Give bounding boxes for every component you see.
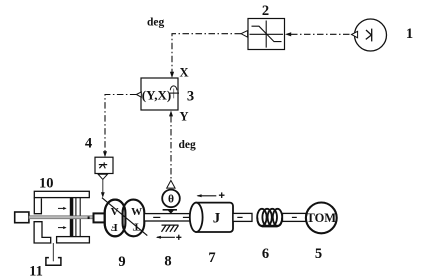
open arrowhead at block 3 left output (136, 92, 141, 97)
arrowhead into block 2 right side (285, 32, 291, 36)
handwheel 1 (circle with lever symbol) (355, 19, 387, 51)
spring coupling 6 (257, 209, 282, 227)
wire: from block 4 down to pump tilt control (102, 179, 104, 192)
svg-text:1: 1 (406, 26, 413, 42)
inertia cylinder 7 (J) (190, 203, 233, 232)
piston (thick bar) (70, 198, 74, 237)
svg-text:X: X (180, 66, 189, 80)
svg-text:deg: deg (179, 139, 197, 151)
open arrowhead at block 2 output (241, 31, 248, 38)
open arrowhead at handwheel 1 output (352, 31, 358, 38)
rotation sense arrow lower (- +) (156, 235, 182, 240)
arrowhead into block 3 bottom (Y input) (169, 111, 173, 117)
flow arrow lower (58, 227, 63, 229)
bottom plate (57, 237, 90, 243)
svg-text:J: J (213, 210, 221, 226)
drain cup 11 (46, 258, 61, 266)
left port (15, 212, 29, 223)
svg-text:10: 10 (39, 175, 54, 191)
svg-text:5: 5 (315, 246, 322, 262)
arrowhead onto pump swash plate (101, 192, 105, 198)
svg-text:F: F (111, 221, 118, 233)
arrowhead into block 3 top (X input) (170, 72, 174, 78)
shaft 8 (144, 214, 191, 221)
svg-text:Y: Y (180, 109, 189, 123)
rod end nub (88, 216, 90, 219)
amplifier block 4 (95, 157, 113, 173)
wire: dash-dot from theta sensor up to block 3 (170, 116, 172, 180)
top bar (34, 191, 89, 197)
swash tilt diagonal (102, 198, 147, 236)
wire: dash-dot from block 3 to block 4 (105, 95, 136, 152)
nonlinear block 2 (saturation) (248, 19, 285, 50)
open arrowhead below block 4 (98, 174, 107, 179)
svg-text:TOM: TOM (306, 211, 336, 225)
svg-text:8: 8 (164, 253, 171, 269)
svg-text:7: 7 (208, 250, 215, 266)
svg-text:6: 6 (262, 246, 269, 262)
svg-text:W: W (131, 206, 142, 218)
svg-text:3: 3 (187, 89, 194, 105)
shaft J to spring (233, 213, 252, 221)
resolver block 3 (Y,X) (141, 78, 179, 110)
upper-left wall channel (34, 198, 41, 214)
flow arrow upper (58, 207, 63, 209)
rotation sense arrow upper (- +) (197, 192, 225, 198)
fixed frame hatching (162, 225, 179, 232)
svg-text:deg: deg (147, 17, 165, 29)
open arrowhead above theta sensor (167, 180, 175, 188)
wire: dash-dot from block 2 output to corner and down to block 3 X input (172, 34, 241, 72)
piston rod (29, 216, 94, 219)
svg-text:4: 4 (85, 136, 92, 152)
hydraulic pump-motor unit 9 (102, 198, 147, 237)
cylinder wall lines (75, 198, 77, 237)
drain pipe (52, 243, 54, 261)
svg-text:9: 9 (118, 254, 125, 270)
wire: dash-dot from handwheel 1 to block 2 (291, 33, 352, 35)
shaft spring to TOM (283, 213, 307, 221)
hydraulic cylinder 10 (15, 191, 106, 243)
theta angle sensor (162, 190, 180, 214)
torque motor 5 (TOM) (306, 203, 337, 234)
arrowhead into block 4 top (103, 151, 107, 157)
rod connector (94, 213, 106, 222)
lower-left L bracket (34, 222, 51, 243)
svg-text:11: 11 (29, 263, 43, 276)
svg-text:2: 2 (262, 3, 269, 19)
svg-text:θ: θ (168, 194, 174, 206)
svg-text:(Y,X): (Y,X) (142, 88, 172, 103)
